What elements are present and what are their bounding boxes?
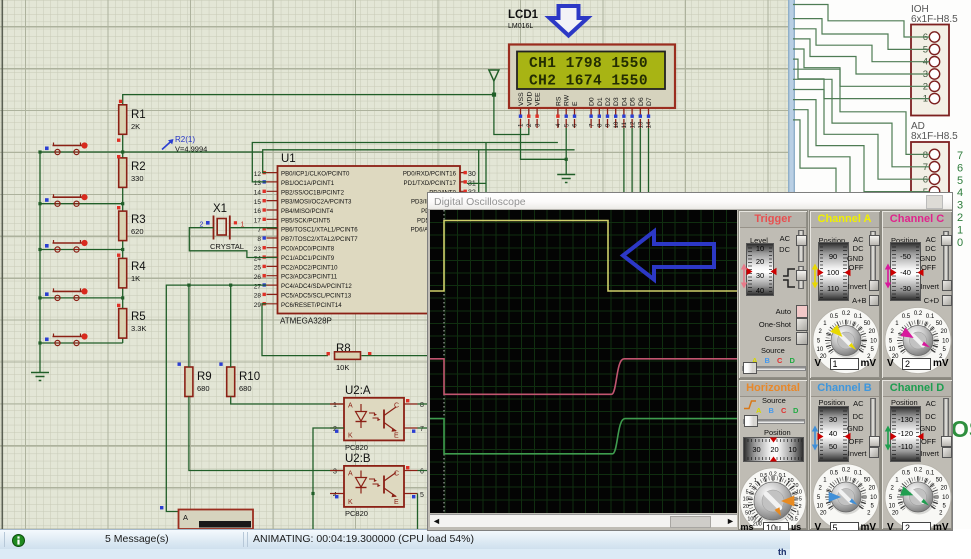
svg-text:R4: R4 [131, 261, 146, 273]
wire AD pin7 [793, 79, 930, 167]
push button SW3 [45, 240, 88, 252]
svg-text:5: 5 [799, 497, 802, 503]
svg-text:8: 8 [257, 236, 261, 243]
svg-text:1K: 1K [131, 274, 140, 283]
wire harness drop B [478, 150, 480, 209]
wire button row 2 [40, 203, 123, 205]
svg-text:0.5: 0.5 [829, 470, 838, 476]
svg-text:10: 10 [613, 121, 620, 128]
wire U1 pin27 bus [166, 285, 266, 511]
svg-text:PC2/ADC2/PCINT10: PC2/ADC2/PCINT10 [281, 264, 338, 271]
LCD text line2 [529, 74, 648, 90]
wire AD pin3 [793, 120, 930, 216]
resistor R3 [117, 206, 146, 241]
OSCILLOSCOPE text fragment [951, 416, 971, 442]
wire button row 4 [40, 297, 123, 299]
svg-text:10: 10 [870, 495, 877, 501]
LCD LM016L body [509, 45, 675, 109]
wire harness drop A [485, 143, 487, 210]
svg-text:PB0/ICP1/CLKO/PCINT0: PB0/ICP1/CLKO/PCINT0 [281, 171, 350, 178]
svg-text:12: 12 [254, 171, 262, 178]
svg-text:RW: RW [564, 94, 571, 106]
svg-text:50: 50 [863, 477, 870, 483]
connector AD labels [911, 121, 958, 142]
net labels 7..0 [957, 150, 963, 249]
svg-text:0.2: 0.2 [841, 311, 850, 317]
svg-text:0: 0 [957, 237, 963, 249]
resistor R9 [178, 363, 212, 397]
wire U2:A pin2 [313, 428, 344, 529]
svg-text:10: 10 [796, 490, 802, 496]
LCD pin numbers [518, 121, 653, 128]
svg-text:RS: RS [555, 96, 562, 106]
wire IOH pin2 [793, 49, 930, 86]
svg-text:A: A [183, 513, 188, 522]
wire LCD D7 down [648, 128, 650, 210]
push button SW2 [45, 194, 88, 206]
resistor R4 [117, 254, 146, 288]
wire IOH pin6 [793, 5, 930, 38]
svg-text:PB3/MOSI/OC2A/PCINT3: PB3/MOSI/OC2A/PCINT3 [281, 199, 352, 206]
crystal X1 [200, 203, 245, 251]
svg-text:10K: 10K [336, 363, 349, 372]
wire IOH pin5 [793, 19, 930, 50]
trace channel A yellow [430, 221, 737, 292]
svg-text:200: 200 [753, 522, 762, 528]
wire R1 top to +5V rail [123, 95, 494, 105]
svg-text:R1: R1 [131, 109, 146, 121]
wire crystal pin1 to XTAL1 [230, 227, 278, 229]
svg-text:D5: D5 [630, 97, 637, 106]
svg-text:8: 8 [420, 402, 424, 409]
svg-text:D0: D0 [589, 97, 596, 106]
svg-text:10: 10 [743, 497, 749, 503]
svg-text:6x1F-H8.5: 6x1F-H8.5 [911, 14, 958, 25]
svg-text:50: 50 [936, 320, 943, 326]
svg-text:R9: R9 [197, 371, 212, 383]
op U1 body [278, 153, 461, 326]
svg-text:1: 1 [957, 224, 963, 236]
svg-text:PB1/OC1A/PCINT1: PB1/OC1A/PCINT1 [281, 180, 335, 187]
svg-text:10: 10 [870, 338, 877, 344]
trace channel C red [430, 359, 737, 395]
svg-text:24: 24 [254, 255, 262, 262]
wire LCD D5 down [631, 128, 633, 210]
wire LCD D4 down [623, 128, 625, 210]
svg-text:CH1 1798 1550: CH1 1798 1550 [529, 56, 648, 72]
svg-text:10: 10 [889, 347, 896, 353]
svg-text:4: 4 [555, 123, 562, 127]
ground [31, 373, 49, 381]
wire button row 1 [40, 151, 263, 153]
wire U1 pin29 to R8 [262, 304, 328, 356]
U1 left pin labels [281, 171, 358, 309]
LCD pin names [518, 92, 653, 106]
svg-text:7: 7 [957, 150, 963, 162]
svg-text:5: 5 [420, 492, 424, 499]
svg-text:PB6/TOSC1/XTAL1/PCINT6: PB6/TOSC1/XTAL1/PCINT6 [281, 227, 358, 234]
svg-text:2K: 2K [131, 122, 140, 131]
svg-text:50: 50 [863, 320, 870, 326]
junction dot RW gnd [565, 158, 568, 161]
resistor R2 [117, 155, 146, 187]
svg-text:12: 12 [629, 121, 636, 128]
wire +5V down to VDD [494, 95, 529, 135]
svg-text:27: 27 [254, 283, 262, 290]
svg-text:30: 30 [468, 171, 476, 178]
svg-text:U1: U1 [281, 153, 296, 165]
wire AD pin8 [793, 69, 930, 154]
svg-text:PC3/ADC3/PCINT11: PC3/ADC3/PCINT11 [281, 274, 338, 281]
junction dots on rail [38, 150, 41, 344]
svg-text:R5: R5 [131, 311, 146, 323]
svg-text:20: 20 [940, 329, 947, 335]
svg-text:50: 50 [936, 477, 943, 483]
optocoupler U2:A [330, 385, 424, 452]
svg-text:23: 23 [254, 246, 262, 253]
wire AD pin5 [793, 100, 930, 192]
svg-text:LM016L: LM016L [508, 23, 533, 30]
svg-text:VEE: VEE [535, 92, 542, 106]
wire button row 3 [40, 249, 123, 251]
svg-text:680: 680 [239, 384, 252, 393]
wire U1 pin13 to LCD RS [252, 143, 558, 182]
svg-text:5: 5 [563, 123, 570, 127]
wire AD pin4 [793, 110, 930, 204]
resistor R10 [219, 363, 260, 397]
wire R9 vertical [189, 285, 344, 470]
wire U2:B outputs [418, 471, 429, 530]
svg-text:PC4/ADC4/SDA/PCINT12: PC4/ADC4/SDA/PCINT12 [281, 283, 352, 290]
resistor R1 [117, 100, 146, 142]
Trigger panel [738, 210, 808, 379]
scope graticule [430, 210, 737, 513]
svg-text:2: 2 [749, 483, 752, 489]
svg-text:11: 11 [621, 122, 628, 129]
Channel A panel [809, 210, 881, 379]
connector AD body [911, 142, 949, 252]
svg-text:5: 5 [746, 490, 749, 496]
svg-text:PC820: PC820 [345, 509, 368, 518]
svg-text:0.2: 0.2 [914, 311, 923, 317]
svg-text:20: 20 [892, 510, 899, 516]
svg-text:9: 9 [605, 123, 612, 127]
svg-text:20: 20 [868, 486, 875, 492]
svg-text:10: 10 [942, 495, 949, 501]
Horizontal panel [738, 379, 808, 530]
svg-text:1: 1 [518, 123, 525, 127]
svg-text:D3: D3 [613, 97, 620, 106]
svg-text:6: 6 [420, 469, 424, 476]
junction dot R10 top [229, 284, 232, 287]
wire VSS RW to ground [521, 128, 567, 174]
U1 right pin numbers 30 31 32 [460, 171, 476, 197]
annotation arrow left [623, 232, 714, 280]
push button SW4 [45, 288, 88, 300]
voltage probe R2(1) [162, 135, 207, 154]
svg-text:20: 20 [868, 329, 875, 335]
wire rail to ground [39, 343, 41, 372]
svg-text:D2: D2 [605, 97, 612, 106]
svg-text:16: 16 [254, 208, 262, 215]
svg-text:3: 3 [534, 123, 541, 127]
Channel B panel [809, 379, 881, 530]
oscilloscope window [427, 192, 953, 531]
svg-text:28: 28 [254, 293, 262, 300]
optocoupler U2:B [330, 453, 424, 518]
svg-text:E: E [572, 101, 579, 106]
svg-text:LCD1: LCD1 [508, 9, 539, 21]
svg-text:R3: R3 [131, 214, 146, 226]
trigger cursor dotted [443, 210, 445, 513]
svg-text:PD1/TXD/PCINT17: PD1/TXD/PCINT17 [404, 180, 457, 187]
svg-text:X1: X1 [213, 203, 227, 215]
resistor R8 [327, 343, 372, 372]
svg-text:0.1: 0.1 [853, 313, 862, 319]
svg-text:PD0/RXD/PCINT16: PD0/RXD/PCINT16 [403, 171, 457, 178]
svg-text:OS: OS [951, 416, 971, 442]
junction dot U2:B pin4 [311, 492, 314, 495]
svg-text:680: 680 [197, 384, 210, 393]
wire R10 vertical [231, 285, 344, 404]
wire button row 5 [40, 342, 123, 344]
svg-text:R2(1): R2(1) [175, 135, 195, 144]
svg-text:K: K [348, 433, 353, 440]
svg-text:0.5: 0.5 [760, 473, 768, 479]
svg-text:20: 20 [793, 483, 799, 489]
annotation arrow down [550, 6, 588, 36]
svg-text:V=4.9994: V=4.9994 [175, 145, 207, 154]
svg-text:17: 17 [254, 218, 262, 225]
svg-text:PC0/ADC0/PCINT8: PC0/ADC0/PCINT8 [281, 246, 335, 253]
resistor R5 [117, 304, 146, 338]
LCD text line1 [529, 56, 648, 72]
svg-text:PC1/ADC1/PCINT9: PC1/ADC1/PCINT9 [281, 255, 335, 262]
sheet grid background [0, 0, 788, 529]
LCD pin stubs [521, 108, 649, 128]
svg-text:0.5: 0.5 [829, 313, 838, 319]
power +5V terminal [489, 70, 499, 95]
svg-text:7: 7 [923, 162, 928, 173]
svg-text:10: 10 [889, 504, 896, 510]
svg-text:0.1: 0.1 [853, 470, 862, 476]
junction dots on chain [121, 150, 124, 299]
wire crystal pin2 to XTAL2 [189, 228, 277, 258]
svg-text:13: 13 [638, 121, 645, 128]
wire LCD D6 down [639, 128, 641, 210]
svg-text:2: 2 [526, 123, 533, 127]
svg-text:2: 2 [957, 212, 963, 224]
svg-text:26: 26 [254, 274, 262, 281]
wire AD pin6 [793, 90, 930, 180]
svg-text:R10: R10 [239, 371, 260, 383]
svg-text:13: 13 [254, 180, 262, 187]
svg-text:D1: D1 [597, 97, 604, 106]
ground LCD [557, 175, 575, 183]
wire U2:A outputs [418, 404, 429, 428]
svg-text:25: 25 [254, 265, 262, 272]
svg-text:VDD: VDD [526, 92, 533, 106]
svg-text:8: 8 [923, 150, 928, 161]
Channel D panel [881, 379, 953, 530]
svg-text:A: A [348, 403, 353, 410]
svg-text:ATMEGA328P: ATMEGA328P [280, 317, 332, 326]
svg-text:PC6/RESET/PCINT14: PC6/RESET/PCINT14 [281, 302, 342, 309]
trace channel D green [430, 419, 737, 454]
svg-text:8: 8 [597, 123, 604, 127]
svg-text:0.5: 0.5 [902, 470, 911, 476]
svg-text:PB2/SS/OC1B/PCINT2: PB2/SS/OC1B/PCINT2 [281, 189, 345, 196]
wire IOH pin1 [793, 59, 930, 99]
connector IOH labels [911, 4, 958, 25]
svg-text:D7: D7 [646, 97, 653, 106]
svg-text:14: 14 [254, 190, 262, 197]
Channel C panel [881, 210, 953, 379]
svg-text:8x1F-H8.5: 8x1F-H8.5 [911, 131, 958, 142]
svg-text:CRYSTAL: CRYSTAL [210, 242, 244, 251]
svg-text:0.2: 0.2 [841, 468, 850, 474]
svg-text:CH2 1674 1550: CH2 1674 1550 [529, 74, 648, 90]
svg-text:R2: R2 [131, 161, 146, 173]
U1 left pin numbers and stubs [254, 171, 278, 309]
wire R8 right [362, 355, 429, 357]
svg-text:PB4/MISO/PCINT4: PB4/MISO/PCINT4 [281, 208, 334, 215]
svg-text:20: 20 [743, 504, 749, 510]
push button SW5 [45, 333, 88, 345]
svg-text:5: 5 [957, 175, 963, 187]
svg-text:0.2: 0.2 [914, 468, 923, 474]
component A (bottom) [160, 506, 253, 529]
svg-text:3.3K: 3.3K [131, 324, 146, 333]
svg-text:U2:A: U2:A [345, 385, 371, 397]
svg-text:7: 7 [588, 123, 595, 127]
junction dot +5V [492, 93, 496, 97]
svg-text:6: 6 [957, 162, 963, 174]
svg-text:620: 620 [131, 227, 144, 236]
svg-text:E: E [394, 433, 399, 440]
svg-text:7: 7 [420, 426, 424, 433]
connector IOH body [911, 25, 949, 116]
svg-text:0.5: 0.5 [902, 313, 911, 319]
svg-text:6: 6 [572, 123, 579, 127]
wire U1 pin12 to LCD E [263, 150, 575, 173]
svg-text:PC820: PC820 [345, 443, 368, 452]
svg-text:3: 3 [957, 200, 963, 212]
svg-text:0.2: 0.2 [769, 472, 777, 478]
svg-text:0.1: 0.1 [926, 470, 935, 476]
svg-text:15: 15 [254, 199, 262, 206]
U1 right pin labels [403, 171, 457, 243]
svg-text:0.1: 0.1 [926, 313, 935, 319]
svg-text:10: 10 [816, 504, 823, 510]
svg-text:20: 20 [940, 486, 947, 492]
svg-text:10: 10 [942, 338, 949, 344]
svg-text:29: 29 [254, 302, 262, 309]
wire U1 pin31 link [467, 182, 486, 184]
wire IOH pin3 [793, 39, 930, 74]
LCD pin squares [519, 115, 650, 118]
svg-text:E: E [394, 499, 399, 506]
svg-text:A: A [348, 471, 353, 478]
svg-text:10: 10 [816, 347, 823, 353]
svg-text:PB5/SCK/PCINT5: PB5/SCK/PCINT5 [281, 217, 331, 224]
svg-text:330: 330 [131, 174, 144, 183]
wire vertical rail [39, 152, 41, 343]
svg-text:4: 4 [957, 187, 963, 199]
svg-text:D4: D4 [621, 97, 628, 106]
svg-text:20: 20 [819, 510, 826, 516]
svg-text:6: 6 [923, 175, 928, 186]
push button SW1 [45, 142, 88, 154]
svg-text:VSS: VSS [518, 92, 525, 106]
svg-text:0.1: 0.1 [779, 473, 787, 479]
svg-text:U2:B: U2:B [345, 453, 371, 465]
svg-text:PB7/TOSC2/XTAL2/PCINT7: PB7/TOSC2/XTAL2/PCINT7 [281, 236, 358, 243]
svg-text:3: 3 [333, 469, 337, 476]
svg-text:1: 1 [333, 402, 337, 409]
svg-text:K: K [348, 499, 353, 506]
wire IOH pin4 [793, 29, 930, 62]
svg-text:2: 2 [799, 504, 802, 510]
junction dot R9 top [187, 284, 190, 287]
svg-text:D6: D6 [638, 97, 645, 106]
svg-text:PC5/ADC5/SCL/PCINT13: PC5/ADC5/SCL/PCINT13 [281, 292, 352, 299]
sheet right border (pale blue strip) [788, 0, 971, 529]
svg-text:1: 1 [754, 478, 757, 484]
svg-text:14: 14 [646, 121, 653, 128]
LCD1 label [508, 9, 539, 30]
wire resistor chain [122, 134, 124, 343]
